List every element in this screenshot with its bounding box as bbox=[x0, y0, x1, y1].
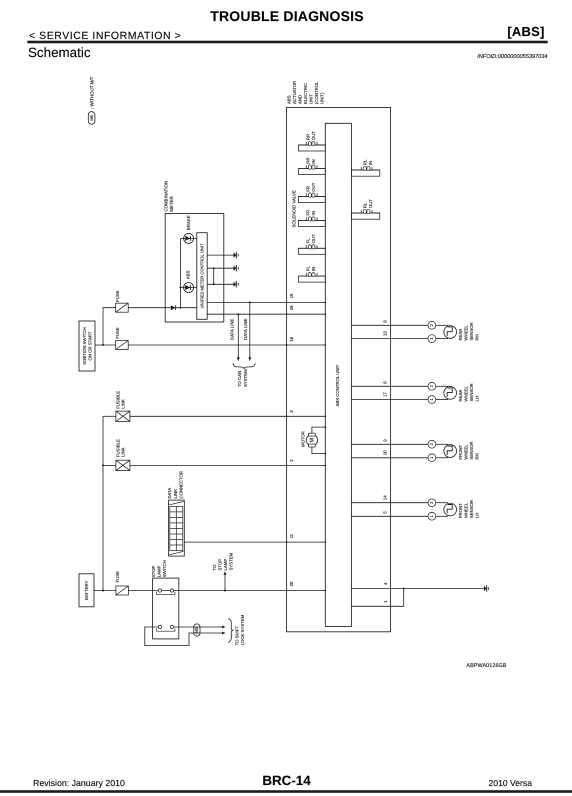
label TO SHIFT LOCK SYSTEM bbox=[235, 614, 246, 645]
indicator lamp ABS bbox=[181, 270, 197, 292]
junctions control unit pin ends bbox=[325, 302, 327, 592]
data link connector bbox=[169, 500, 185, 556]
wire meter pin 19 with junction bbox=[207, 301, 325, 303]
wire motor minus bbox=[312, 447, 326, 455]
svg-text:DATA LINE: DATA LINE bbox=[243, 319, 248, 340]
svg-text:TO SHIFT: TO SHIFT bbox=[235, 626, 240, 646]
svg-text:WHEEL: WHEEL bbox=[463, 444, 468, 460]
ABS control unit box bbox=[325, 123, 351, 626]
svg-text:OUT: OUT bbox=[368, 199, 373, 208]
badge M5 shift lock bbox=[194, 624, 200, 636]
legend badge M5 bbox=[88, 112, 95, 125]
wire meter ground 1 bbox=[207, 254, 233, 256]
solenoid valve RL OUT bbox=[351, 199, 379, 220]
svg-text:SENSOR: SENSOR bbox=[469, 500, 474, 518]
svg-text:RR: RR bbox=[305, 157, 310, 163]
svg-text:6: 6 bbox=[382, 381, 387, 384]
solenoid valve RL IN bbox=[351, 159, 379, 176]
svg-text:IGNITION SWITCH: IGNITION SWITCH bbox=[82, 327, 87, 364]
svg-text:Revision: January 2010: Revision: January 2010 bbox=[33, 778, 125, 788]
pin label 11 bbox=[289, 533, 294, 538]
wire fusible link 2 to pin 2 bbox=[130, 464, 325, 466]
svg-text:RL: RL bbox=[363, 159, 368, 165]
wire battery bus with junctions bbox=[102, 416, 104, 591]
svg-text:20: 20 bbox=[289, 581, 294, 586]
fuse stop lamp bbox=[115, 571, 128, 595]
svg-text:AND: AND bbox=[298, 95, 303, 104]
wire meter pin 28 with junction bbox=[207, 313, 325, 315]
pin label 19 bbox=[289, 293, 294, 298]
svg-text:BRAKE: BRAKE bbox=[186, 215, 191, 230]
svg-text:LH: LH bbox=[474, 513, 479, 519]
wire fusible link 1 to pin 3 bbox=[130, 415, 325, 417]
wire fuse to meter bbox=[128, 307, 197, 309]
fuse meter bbox=[115, 290, 128, 312]
arrowhead shift lock upper bbox=[222, 626, 226, 629]
wire data line 1 with arrowhead bbox=[237, 314, 240, 361]
svg-text:ABS: ABS bbox=[185, 270, 190, 279]
svg-text:OUT: OUT bbox=[311, 234, 316, 243]
wire motor plus bbox=[312, 426, 326, 433]
wire ground tie with junctions bbox=[213, 267, 215, 285]
wire shift lock upper bbox=[174, 626, 223, 628]
junction diode output bbox=[180, 307, 182, 309]
svg-text:UNIFIED METER CONTROL UNIT: UNIFIED METER CONTROL UNIT bbox=[199, 243, 204, 308]
svg-text:LOCK SYSTEM: LOCK SYSTEM bbox=[240, 614, 245, 645]
solenoid valve FL IN bbox=[298, 266, 325, 283]
svg-text:: WITHOUT M/T: : WITHOUT M/T bbox=[89, 76, 94, 109]
wire bus to fusible link 1 bbox=[103, 415, 116, 417]
svg-text:FUSIBLE: FUSIBLE bbox=[115, 439, 120, 457]
svg-text:SENSOR: SENSOR bbox=[469, 441, 474, 459]
svg-text:WHEEL: WHEEL bbox=[463, 502, 468, 518]
fuse ABS ign bbox=[115, 327, 128, 349]
svg-text:SOLENOID VALVE: SOLENOID VALVE bbox=[292, 190, 297, 227]
svg-text:FUSIBLE: FUSIBLE bbox=[115, 391, 120, 409]
svg-text:OUT: OUT bbox=[311, 182, 316, 191]
svg-text:3: 3 bbox=[289, 410, 294, 413]
svg-text:18: 18 bbox=[289, 336, 294, 341]
wire meter ground 3 bbox=[207, 283, 233, 285]
svg-text:ABPWA0126GB: ABPWA0126GB bbox=[466, 663, 506, 669]
footer rule bbox=[0, 790, 572, 793]
svg-text:MOTOR: MOTOR bbox=[300, 431, 305, 447]
svg-text:UNIT): UNIT) bbox=[320, 92, 325, 104]
svg-text:WHEEL: WHEEL bbox=[463, 325, 468, 341]
ground meter 2 bbox=[234, 265, 239, 271]
svg-text:FRONT: FRONT bbox=[458, 444, 463, 459]
svg-text:FR: FR bbox=[305, 186, 310, 192]
brace shift lock bbox=[228, 619, 233, 643]
svg-text:FUSE: FUSE bbox=[115, 290, 120, 302]
pin label 2 bbox=[289, 459, 294, 462]
svg-text:FUSE: FUSE bbox=[115, 571, 120, 583]
rear wheel sensor RH bbox=[351, 320, 479, 343]
svg-text:TROUBLE DIAGNOSIS: TROUBLE DIAGNOSIS bbox=[210, 8, 364, 24]
brace CAN bbox=[233, 363, 255, 369]
svg-text:IN: IN bbox=[311, 159, 316, 163]
svg-text:17: 17 bbox=[382, 392, 387, 397]
wire to body ground bbox=[404, 588, 484, 590]
svg-text:4: 4 bbox=[383, 582, 388, 585]
label TO STOP LAMP SYSTEM bbox=[212, 552, 234, 570]
svg-text:RL: RL bbox=[363, 202, 368, 208]
svg-text:9: 9 bbox=[382, 439, 387, 442]
wire ignition output with junction bbox=[95, 344, 116, 346]
switch contact upper bbox=[157, 589, 175, 594]
label DATA LINE 1 bbox=[230, 319, 235, 340]
ignition switch box bbox=[79, 321, 95, 371]
svg-text:RR: RR bbox=[305, 134, 310, 140]
svg-text:DATA LINE: DATA LINE bbox=[230, 319, 235, 340]
svg-text:ELECTRIC: ELECTRIC bbox=[303, 83, 308, 104]
ABS actuator outer box bbox=[287, 107, 391, 631]
label SOLENOID VALVE bbox=[292, 190, 297, 227]
junctions outer box left edge bbox=[286, 302, 288, 592]
wire lamp feed vertical bbox=[180, 238, 182, 307]
svg-text:FR: FR bbox=[305, 210, 310, 216]
svg-text:FRONT: FRONT bbox=[458, 503, 463, 518]
svg-text:14: 14 bbox=[382, 495, 387, 500]
switch contact lower bbox=[157, 625, 175, 631]
svg-text:STOP: STOP bbox=[151, 565, 156, 577]
svg-text:FUSE: FUSE bbox=[115, 327, 120, 339]
label DATA LINE 2 bbox=[243, 319, 248, 340]
svg-text:2: 2 bbox=[289, 459, 294, 462]
wire battery to fuse bbox=[94, 590, 116, 592]
svg-text:[ABS]: [ABS] bbox=[507, 24, 544, 39]
svg-text:WHEEL: WHEEL bbox=[463, 386, 468, 402]
svg-text:ON OR START: ON OR START bbox=[87, 331, 92, 360]
wire arrow to stop lamp system bbox=[224, 571, 227, 590]
svg-text:TO CAN: TO CAN bbox=[237, 371, 242, 387]
svg-text:5: 5 bbox=[382, 511, 387, 514]
label ABS ACTUATOR AND ELECTRIC UNIT bbox=[287, 81, 325, 104]
svg-text:METER: METER bbox=[169, 196, 174, 211]
svg-text:BATTERY: BATTERY bbox=[84, 580, 89, 600]
fusible link 2 bbox=[115, 439, 130, 471]
svg-text:TO: TO bbox=[212, 564, 217, 571]
wire stop lamp feed to pin 20 bbox=[129, 590, 326, 592]
svg-text:REAR: REAR bbox=[458, 329, 463, 341]
svg-text:LH: LH bbox=[474, 396, 479, 402]
header rule bbox=[27, 41, 547, 44]
svg-text:SWITCH: SWITCH bbox=[162, 560, 167, 577]
svg-text:< SERVICE INFORMATION >: < SERVICE INFORMATION > bbox=[29, 30, 181, 42]
solenoid valve RR IN bbox=[298, 157, 325, 174]
svg-text:19: 19 bbox=[382, 331, 387, 336]
battery box bbox=[79, 574, 94, 607]
svg-text:2010 Versa: 2010 Versa bbox=[489, 778, 533, 788]
svg-text:M: M bbox=[310, 437, 316, 442]
junction ground wires bbox=[403, 588, 405, 590]
svg-text:OUT: OUT bbox=[311, 131, 316, 140]
solenoid valve FR OUT bbox=[298, 182, 325, 202]
svg-text:10: 10 bbox=[382, 450, 387, 455]
indicator lamp BRAKE bbox=[181, 215, 197, 243]
svg-text:CONNECTOR: CONNECTOR bbox=[179, 471, 184, 499]
svg-text:LAMP: LAMP bbox=[157, 565, 162, 577]
svg-text:LINK: LINK bbox=[173, 489, 178, 499]
wire bus to fusible link 2 bbox=[103, 464, 116, 466]
unified meter control unit box bbox=[197, 233, 207, 320]
svg-text:REAR: REAR bbox=[458, 390, 463, 402]
wire DLC to pin 11 bbox=[184, 541, 325, 543]
svg-text:IN: IN bbox=[368, 161, 373, 165]
ground meter 3 bbox=[234, 281, 239, 287]
svg-text:M5: M5 bbox=[194, 626, 199, 632]
diode meter feed bbox=[171, 305, 176, 310]
stop lamp switch box bbox=[153, 578, 179, 639]
rear wheel sensor LH bbox=[351, 381, 479, 404]
front wheel sensor LH bbox=[351, 495, 479, 520]
svg-text:IN: IN bbox=[311, 211, 316, 215]
wire pin 4 bbox=[351, 582, 403, 589]
svg-text:SENSOR: SENSOR bbox=[469, 383, 474, 401]
svg-text:BRC-14: BRC-14 bbox=[262, 773, 311, 788]
svg-text:19: 19 bbox=[289, 293, 294, 298]
svg-text:8: 8 bbox=[382, 320, 387, 323]
pin label 18 bbox=[289, 336, 294, 341]
svg-text:LINK: LINK bbox=[121, 447, 126, 457]
svg-text:RH: RH bbox=[474, 453, 479, 459]
svg-text:1: 1 bbox=[383, 600, 388, 603]
wire data line 2 with arrowhead bbox=[248, 302, 251, 361]
svg-text:DATA: DATA bbox=[167, 488, 172, 499]
svg-text:RH: RH bbox=[474, 334, 479, 340]
svg-text:INFOID:0000000055397034: INFOID:0000000055397034 bbox=[477, 54, 547, 60]
svg-text:IN: IN bbox=[311, 267, 316, 271]
wire pin 1 bbox=[351, 589, 403, 607]
solenoid valve FR IN bbox=[298, 210, 325, 227]
ground meter 1 bbox=[234, 252, 239, 258]
label STOP LAMP SWITCH bbox=[151, 560, 167, 577]
ground ABS unit bbox=[484, 585, 489, 591]
svg-text:UNIT: UNIT bbox=[309, 94, 314, 104]
svg-text:(CONTROL: (CONTROL bbox=[314, 81, 319, 104]
svg-text:FL: FL bbox=[305, 266, 310, 272]
solenoid valve FL OUT bbox=[298, 234, 325, 254]
solenoid valve RR OUT bbox=[298, 131, 325, 151]
combination meter box bbox=[165, 214, 224, 323]
svg-text:ABS: ABS bbox=[287, 95, 292, 104]
motor M bbox=[300, 431, 317, 447]
junction lamp ABS tap bbox=[180, 287, 182, 289]
wire ignition riser bbox=[103, 308, 116, 345]
arrowhead shift lock lower bbox=[222, 632, 226, 635]
label COMBINATION METER bbox=[163, 181, 174, 212]
pin label 3 bbox=[289, 410, 294, 413]
svg-text:FL: FL bbox=[305, 238, 310, 244]
label DATA LINK CONNECTOR bbox=[167, 471, 184, 499]
legend text WITHOUT M/T bbox=[89, 76, 94, 109]
label ABS CONTROL UNIT bbox=[335, 364, 340, 406]
svg-text:LAMP: LAMP bbox=[223, 559, 228, 571]
svg-text:SYSTEM: SYSTEM bbox=[243, 369, 248, 387]
svg-text:ABS CONTROL UNIT: ABS CONTROL UNIT bbox=[335, 364, 340, 406]
svg-text:Schematic: Schematic bbox=[28, 45, 91, 60]
svg-text:COMBINATION: COMBINATION bbox=[163, 181, 168, 212]
svg-text:M5: M5 bbox=[89, 114, 94, 120]
svg-text:11: 11 bbox=[289, 533, 294, 538]
wire shift lock lower loop bbox=[145, 627, 222, 646]
junction stop lamp tap bbox=[224, 590, 226, 592]
label TO CAN SYSTEM bbox=[237, 369, 248, 387]
pin label 20 bbox=[289, 581, 294, 586]
svg-text:LINK: LINK bbox=[121, 399, 126, 409]
pin label 28 bbox=[289, 305, 294, 310]
svg-text:ACTUATOR: ACTUATOR bbox=[292, 81, 297, 104]
svg-text:28: 28 bbox=[289, 305, 294, 310]
svg-text:SYSTEM: SYSTEM bbox=[229, 552, 234, 570]
wire fuse to pin 18 bbox=[128, 344, 325, 346]
svg-text:STOP: STOP bbox=[218, 559, 223, 571]
svg-text:SENSOR: SENSOR bbox=[469, 322, 474, 340]
wire meter ground 2 bbox=[207, 267, 233, 269]
front wheel sensor RH bbox=[351, 439, 479, 462]
fusible link 1 bbox=[115, 391, 130, 422]
